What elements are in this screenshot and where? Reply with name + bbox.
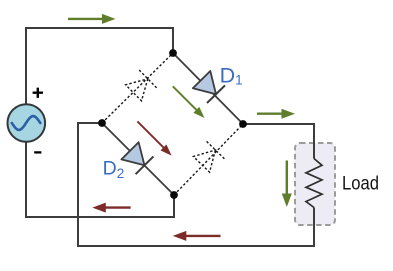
node right [239, 120, 247, 128]
svg-text:Load: Load [342, 173, 379, 195]
wire: source top loop [26, 28, 173, 104]
return current arrow upper (red, left) [105, 206, 131, 208]
diode D4 (dashed, off) [193, 150, 215, 172]
node left [98, 119, 106, 127]
return current arrow lower (red, left) [185, 235, 220, 237]
svg-text:D1: D1 [220, 64, 243, 88]
diode D3 (dashed, off) [126, 79, 148, 101]
wire: bridge left node to load bottom [78, 123, 314, 246]
diode D1 [193, 71, 216, 94]
svg-text:D2: D2 [103, 158, 125, 182]
node bottom [170, 191, 178, 199]
wire: bridge right node to load top [243, 124, 314, 159]
load box [295, 143, 335, 225]
diode D2 [121, 142, 144, 165]
current arrow at load (green, down) [286, 161, 288, 195]
wire: arm left node to top node (dashed, non-conducting) [102, 53, 173, 123]
wire: arm bottom node to right node (dashed, non-conducting) [174, 124, 243, 195]
wire: arm left node to bottom node (conducting) [102, 123, 174, 195]
minus terminal [34, 151, 41, 153]
resistor Load [306, 159, 322, 208]
current arrow right (green, right) [257, 112, 283, 114]
AC source V1 [8, 104, 46, 142]
current arrow through D2 (red, diagonal) [137, 121, 164, 148]
wire: arm top node to right node (conducting) [173, 53, 243, 124]
current arrow through D1 (green, diagonal) [173, 86, 197, 110]
node top [169, 49, 177, 57]
plus terminal [33, 88, 43, 98]
current arrow top (green, right) [68, 18, 103, 20]
wire: source bottom to bridge bottom node [26, 142, 174, 217]
